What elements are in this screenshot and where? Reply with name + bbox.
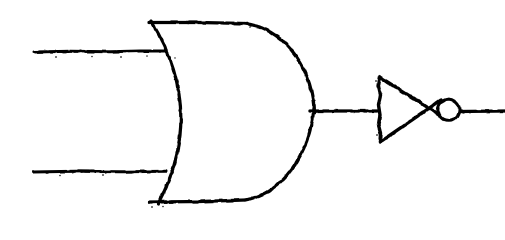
node output tip blob <box>312 101 316 113</box>
node inversion bubble <box>438 99 460 121</box>
inverter U2 triangle <box>378 77 443 142</box>
wire input A (top) <box>34 51 166 52</box>
wire OR output to inverter <box>310 109 377 112</box>
wire bottom edge line <box>150 200 245 202</box>
wire triangle top edge <box>380 77 444 117</box>
node left concave arc <box>151 21 181 204</box>
node bottom-right arc <box>245 108 314 200</box>
wire triangle bottom edge <box>380 100 441 142</box>
wire top edge line <box>149 23 245 24</box>
node scan speckles <box>55 26 378 208</box>
wire input B (bottom) <box>33 170 166 174</box>
wire triangle left edge <box>378 77 380 142</box>
OR gate U1 body <box>149 21 315 204</box>
node top-right arc <box>245 24 314 109</box>
wire output <box>460 109 505 113</box>
